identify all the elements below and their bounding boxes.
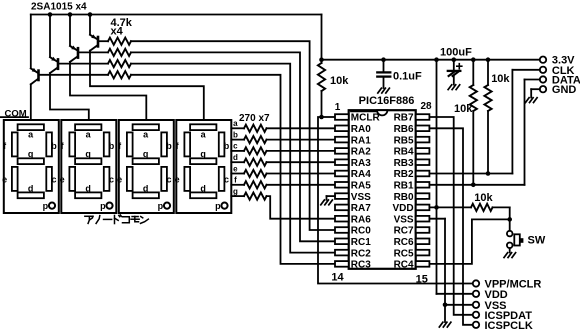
svg-text:RA0: RA0 bbox=[351, 124, 371, 135]
svg-text:d: d bbox=[233, 153, 238, 162]
svg-text:RC4: RC4 bbox=[394, 260, 414, 271]
svg-text:2SA1015 x4: 2SA1015 x4 bbox=[31, 2, 87, 13]
svg-text:f: f bbox=[234, 176, 237, 185]
svg-text:e: e bbox=[117, 175, 122, 185]
svg-text:RB4: RB4 bbox=[394, 147, 414, 158]
svg-text:10k: 10k bbox=[491, 73, 510, 85]
svg-text:RB6: RB6 bbox=[394, 124, 414, 135]
svg-text:a: a bbox=[233, 119, 238, 128]
svg-text:1: 1 bbox=[335, 102, 341, 113]
svg-text:RB2: RB2 bbox=[394, 169, 414, 180]
svg-text:28: 28 bbox=[420, 101, 432, 112]
svg-text:p: p bbox=[43, 201, 49, 211]
svg-text:c: c bbox=[51, 175, 56, 185]
svg-text:RC1: RC1 bbox=[351, 237, 371, 248]
svg-text:e: e bbox=[2, 175, 7, 185]
svg-text:e: e bbox=[233, 164, 238, 173]
svg-text:e: e bbox=[60, 175, 65, 185]
svg-text:14: 14 bbox=[331, 272, 344, 284]
svg-text:x4: x4 bbox=[111, 26, 124, 38]
svg-text:b: b bbox=[224, 141, 230, 151]
svg-text:c: c bbox=[166, 175, 171, 185]
svg-text:RA5: RA5 bbox=[351, 181, 371, 192]
svg-text:g: g bbox=[28, 149, 34, 159]
svg-text:RC5: RC5 bbox=[394, 248, 414, 259]
svg-text:RB1: RB1 bbox=[394, 181, 414, 192]
svg-text:RA4: RA4 bbox=[351, 169, 371, 180]
svg-text:g: g bbox=[85, 149, 91, 159]
svg-text:c: c bbox=[224, 175, 229, 185]
svg-text:RB5: RB5 bbox=[394, 135, 414, 146]
svg-text:VDD: VDD bbox=[392, 203, 413, 214]
svg-text:RC0: RC0 bbox=[351, 226, 371, 237]
svg-text:p: p bbox=[100, 201, 106, 211]
svg-text:RA1: RA1 bbox=[351, 135, 371, 146]
svg-text:g: g bbox=[233, 187, 238, 196]
svg-text:MCLR: MCLR bbox=[351, 113, 381, 124]
svg-text:RA2: RA2 bbox=[351, 147, 371, 158]
svg-text:ICSPCLK: ICSPCLK bbox=[485, 320, 533, 332]
svg-text:VSS: VSS bbox=[351, 192, 371, 203]
svg-text:270 x7: 270 x7 bbox=[239, 113, 270, 124]
svg-text:VSS: VSS bbox=[394, 214, 414, 225]
svg-text:GND: GND bbox=[552, 84, 577, 96]
svg-text:10k: 10k bbox=[454, 103, 473, 115]
svg-text:c: c bbox=[109, 175, 114, 185]
svg-text:RC3: RC3 bbox=[351, 260, 371, 271]
svg-text:g: g bbox=[200, 149, 206, 159]
svg-text:p: p bbox=[215, 201, 221, 211]
svg-text:10k: 10k bbox=[330, 75, 349, 87]
svg-text:RB0: RB0 bbox=[394, 192, 414, 203]
svg-text:p: p bbox=[158, 201, 164, 211]
svg-text:d: d bbox=[200, 183, 206, 193]
svg-text:10k: 10k bbox=[474, 192, 493, 204]
svg-text:RC7: RC7 bbox=[394, 226, 414, 237]
svg-text:c: c bbox=[233, 142, 238, 151]
svg-text:d: d bbox=[143, 183, 149, 193]
svg-text:RA7: RA7 bbox=[351, 203, 371, 214]
svg-text:e: e bbox=[175, 175, 180, 185]
svg-text:b: b bbox=[233, 130, 238, 139]
svg-text:PIC16F886: PIC16F886 bbox=[359, 95, 415, 107]
svg-text:SW: SW bbox=[528, 234, 546, 246]
svg-text:g: g bbox=[143, 149, 149, 159]
svg-text:RC2: RC2 bbox=[351, 248, 371, 259]
svg-text:b: b bbox=[166, 141, 172, 151]
svg-text:RC6: RC6 bbox=[394, 237, 414, 248]
svg-text:RA6: RA6 bbox=[351, 214, 371, 225]
svg-text:b: b bbox=[109, 141, 115, 151]
svg-text:d: d bbox=[28, 183, 34, 193]
svg-text:100uF: 100uF bbox=[440, 47, 472, 59]
svg-text:0.1uF: 0.1uF bbox=[393, 71, 422, 83]
svg-text:RB7: RB7 bbox=[394, 113, 414, 124]
svg-text:d: d bbox=[85, 183, 91, 193]
svg-text:RB3: RB3 bbox=[394, 158, 414, 169]
svg-text:15: 15 bbox=[416, 274, 428, 286]
svg-text:b: b bbox=[51, 141, 57, 151]
svg-text:RA3: RA3 bbox=[351, 158, 371, 169]
